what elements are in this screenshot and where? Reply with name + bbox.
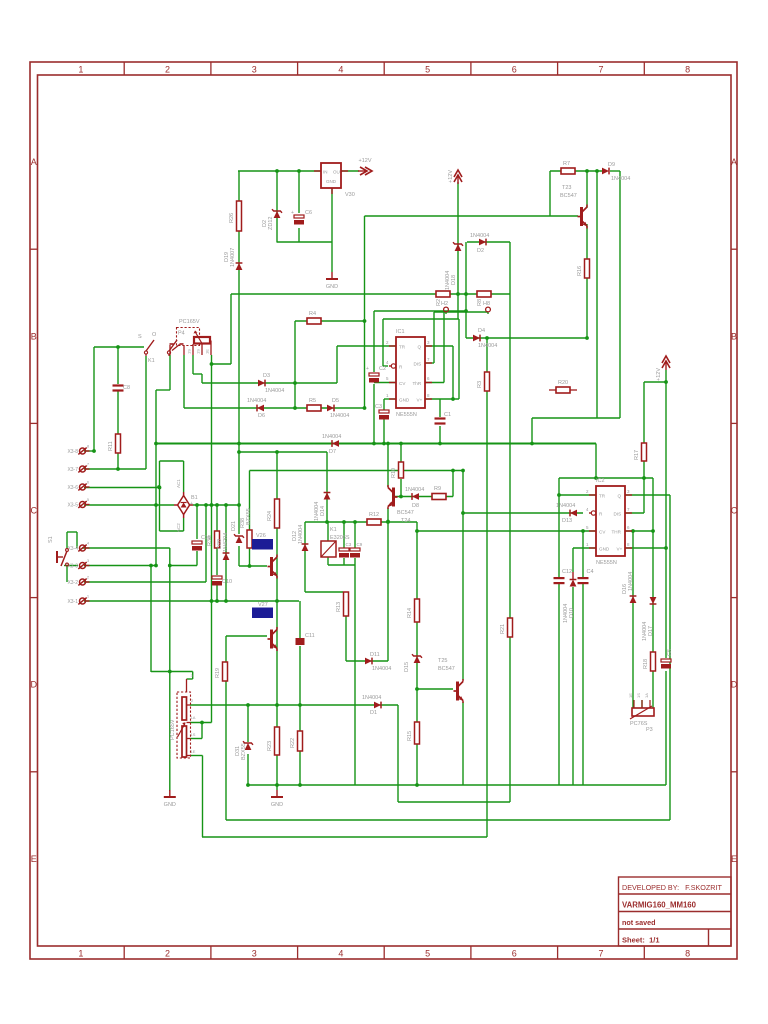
svg-text:1A: 1A (191, 715, 196, 720)
wire R5/D5/D6 line (184, 407, 365, 409)
svg-text:1N4004: 1N4004 (330, 413, 349, 419)
ground P2 (169, 790, 171, 797)
wire D11 line (346, 660, 388, 662)
svg-text:C: C (731, 506, 738, 516)
svg-text:4: 4 (338, 65, 343, 75)
wire D31 chain (247, 705, 249, 742)
svg-text:TR: TR (599, 494, 606, 499)
svg-text:Q: Q (618, 494, 622, 499)
resistor R10 (399, 462, 404, 478)
wire D21 to V26 base (239, 565, 267, 567)
resistor R9 (432, 494, 446, 500)
frame column ticks top/bottom (123, 62, 125, 75)
wire IC2 Q down to bus (669, 495, 671, 820)
wire C2 chain (373, 311, 375, 372)
svg-text:D: D (731, 680, 738, 690)
svg-text:R3: R3 (477, 381, 483, 388)
svg-text:3: 3 (252, 65, 257, 75)
svg-text:+12V: +12V (359, 158, 372, 164)
svg-text:V26: V26 (256, 533, 266, 539)
svg-text:1S: 1S (196, 349, 201, 354)
resistor R26 (237, 201, 242, 231)
svg-text:E3206S: E3206S (330, 535, 350, 541)
connector X3-1 (80, 598, 86, 604)
optocoupler V26 (252, 539, 273, 550)
svg-text:A: A (31, 157, 37, 167)
svg-text:DEVELOPED BY: F.SKOZRIT: DEVELOPED BY: F.SKOZRIT (622, 883, 722, 892)
svg-text:C9: C9 (357, 542, 363, 547)
wire IC1 DIS stub (425, 362, 434, 364)
svg-text:Sheet: 1/1: Sheet: 1/1 (622, 936, 660, 945)
wire H2 stub (445, 312, 447, 314)
potentiometer P3 (632, 708, 654, 716)
wire R4 line (295, 320, 365, 322)
zener D31 (245, 743, 252, 750)
wire bottom bus 1 (248, 784, 666, 786)
svg-text:X3-3: X3-3 (67, 564, 78, 570)
svg-text:C3: C3 (346, 542, 352, 547)
wire corner bus (595, 444, 597, 479)
svg-text:R15: R15 (407, 731, 413, 741)
wire V30 OUT to +12V arrow (341, 170, 359, 172)
svg-text:1N4004: 1N4004 (322, 434, 341, 440)
svg-text:1E: 1E (191, 749, 196, 754)
wire X3-7 pin line (84, 468, 146, 470)
svg-text:C8: C8 (123, 385, 130, 391)
svg-text:C12: C12 (562, 569, 572, 575)
wire IC1 ThR stub (425, 382, 444, 384)
capacitor C6 (294, 215, 304, 218)
diode D11 (365, 658, 372, 665)
svg-text:5: 5 (425, 65, 430, 75)
wire R2/R8 line (231, 293, 510, 295)
resistor R5 (307, 405, 321, 411)
svg-text:1S: 1S (636, 693, 641, 698)
wire reset/+12 link (383, 318, 459, 320)
wire bridge + output (193, 504, 239, 506)
svg-text:K1: K1 (148, 358, 155, 364)
wire switch down to X3-3 (155, 390, 157, 566)
wire R24 branch (239, 451, 327, 453)
wire R3 long chain (486, 338, 488, 837)
diode D13 (570, 510, 577, 517)
diode D10 (572, 572, 574, 580)
svg-text:B: B (31, 331, 37, 341)
wire bottom bus 3 (226, 819, 670, 821)
connector X3-2 (80, 579, 86, 585)
diode D9 (602, 168, 609, 175)
svg-text:D15: D15 (404, 662, 410, 672)
wire IC2 THR line (625, 530, 653, 532)
wire C15 bottom link (170, 565, 197, 567)
svg-text:D1: D1 (370, 710, 377, 716)
wire P2 1E down (202, 756, 204, 838)
svg-text:R20: R20 (558, 380, 568, 386)
svg-text:1N4004: 1N4004 (405, 487, 424, 493)
voltage regulator V30 (321, 163, 341, 188)
svg-text:Q: Q (418, 345, 422, 350)
transistor V27 output (270, 630, 273, 649)
svg-text:NE555N: NE555N (396, 412, 417, 418)
wire Q to V+ vertical (452, 346, 454, 399)
svg-text:D18: D18 (451, 275, 457, 285)
svg-text:X3-5: X3-5 (67, 503, 78, 509)
svg-text:D17: D17 (648, 626, 654, 636)
svg-text:1N4004: 1N4004 (611, 176, 630, 182)
transistor T23 (580, 207, 583, 226)
connector X3-4 (80, 545, 86, 551)
svg-text:BZX55: BZX55 (246, 508, 252, 525)
wire X3-3 branch down (150, 566, 152, 673)
frame row ticks left/right (30, 248, 38, 250)
wire C1 chain (439, 399, 441, 417)
svg-text:R34: R34 (207, 536, 213, 546)
wire X3-2 up (205, 505, 207, 582)
resistor R13 (344, 592, 349, 616)
wire D12 to R13 (305, 591, 343, 593)
svg-text:GND: GND (271, 802, 283, 808)
svg-text:D3: D3 (263, 373, 270, 379)
svg-text:6: 6 (512, 65, 517, 75)
svg-text:R9: R9 (434, 486, 441, 492)
wire S1 staple (67, 531, 77, 533)
wire X3-2 pin line (84, 581, 206, 583)
wire P3 middle stub (641, 700, 643, 708)
wire bottom bus 4 (202, 836, 487, 838)
svg-text:1N4004: 1N4004 (372, 666, 391, 672)
svg-text:D6: D6 (258, 413, 265, 419)
svg-text:GND: GND (399, 398, 410, 403)
resistor R16 (585, 259, 590, 278)
svg-text:O: O (152, 332, 157, 338)
svg-text:X3-8: X3-8 (67, 449, 78, 455)
svg-text:DIS: DIS (414, 362, 422, 367)
svg-text:+: + (366, 366, 369, 372)
svg-text:V27: V27 (258, 602, 268, 608)
wire IC1 GND stub (384, 398, 396, 400)
wire R24/V26/V27 chain (276, 452, 278, 790)
connector X3-5 (80, 502, 86, 508)
svg-text:CV: CV (399, 381, 406, 386)
wire IC2 Q line (625, 494, 670, 496)
resistor R12 (367, 519, 381, 525)
transformer P2 (177, 692, 191, 758)
wire zener D2 chain (276, 171, 278, 242)
zener D2 (274, 211, 281, 218)
svg-text:BC547: BC547 (560, 193, 577, 199)
svg-text:H2: H2 (441, 301, 448, 307)
wire P4 pin3 down to P2 1A (211, 355, 213, 723)
diode D17 (650, 597, 657, 604)
wire X3-8 up (93, 347, 95, 451)
svg-text:1A: 1A (644, 693, 649, 698)
wire R12 line (305, 521, 417, 523)
wire T23 base line (365, 215, 579, 217)
svg-text:D: D (30, 680, 37, 690)
junction dots (275, 169, 279, 173)
svg-text:1N4004: 1N4004 (556, 503, 575, 509)
svg-text:K1: K1 (330, 527, 337, 533)
wire C9 chain (354, 522, 356, 548)
wire R10 chain (400, 444, 402, 463)
wire transformer to R2 line (230, 294, 232, 364)
transistor V26 output (270, 557, 273, 576)
svg-text:ThR: ThR (413, 381, 422, 386)
svg-text:C2: C2 (379, 366, 386, 372)
svg-text:R13: R13 (336, 602, 342, 612)
svg-text:1S: 1S (187, 349, 192, 354)
wire +12V D18 chain (457, 182, 459, 319)
svg-text:R4: R4 (309, 311, 316, 317)
wire R9 riser (452, 471, 454, 497)
svg-text:1N4204: 1N4204 (223, 533, 229, 552)
svg-text:X3-4: X3-4 (67, 546, 78, 552)
svg-text:1N4007: 1N4007 (230, 248, 236, 267)
svg-text:T25: T25 (438, 658, 447, 664)
svg-text:R22: R22 (290, 738, 296, 748)
svg-text:1N4004: 1N4004 (362, 695, 381, 701)
svg-text:4: 4 (338, 949, 343, 959)
svg-text:C11: C11 (305, 633, 315, 639)
wire P2 pin stubs (190, 722, 212, 724)
zener D18 (455, 244, 462, 251)
svg-text:E: E (731, 854, 737, 864)
wire transformer link (212, 363, 232, 365)
transistor T24 (392, 488, 395, 507)
diode D12 (302, 544, 309, 551)
resistor R4 (307, 318, 321, 324)
svg-text:R11: R11 (108, 441, 114, 451)
svg-text:T23: T23 (562, 185, 571, 191)
wire B1 AC1 riser (159, 461, 161, 531)
svg-text:R24: R24 (267, 511, 273, 521)
svg-text:D13: D13 (562, 518, 572, 524)
resistor R21 (508, 618, 513, 637)
svg-text:R7: R7 (563, 161, 570, 167)
wire T23 collector/emitter chain (586, 171, 588, 208)
wire D2 1N4004 branch (467, 241, 510, 243)
svg-text:D7: D7 (329, 449, 336, 455)
wire base net / R4-D5 vertical (364, 216, 366, 408)
diode D19 (236, 263, 243, 270)
svg-text:PC165V: PC165V (170, 719, 176, 740)
svg-text:8: 8 (685, 949, 690, 959)
wire +12V top rail to V30 IN (238, 170, 321, 172)
svg-text:2: 2 (165, 65, 170, 75)
wire ThR vertical (443, 312, 445, 383)
wire C4 chain (582, 531, 584, 577)
wire switch pole left (145, 356, 147, 469)
IC2 NE555 (596, 486, 625, 556)
pin H2 (444, 307, 449, 312)
diode D8 (412, 493, 419, 500)
resistor R20 (556, 387, 570, 393)
capacitor C3 (379, 410, 389, 413)
wire P4 pin2 jog (192, 355, 194, 374)
wire IC1 CV stub (374, 382, 396, 384)
svg-text:V30: V30 (345, 192, 355, 198)
svg-text:IN: IN (323, 170, 328, 175)
wire K1 coil chain (327, 522, 329, 565)
resistor R19 (223, 662, 228, 681)
wire D1 line (190, 704, 398, 706)
wire D17/R18 chain (652, 478, 654, 708)
svg-text:R14: R14 (407, 608, 413, 618)
svg-text:C: C (30, 506, 37, 516)
capacitor C4 (578, 577, 589, 579)
wire X3-4 pin line (82, 547, 170, 549)
wire cap bottoms link (328, 564, 355, 566)
connector X3-6 (80, 484, 86, 490)
+12V supply arrow up right (662, 356, 670, 363)
svg-text:GND: GND (326, 179, 337, 184)
wire X3-5 pin to bridge (84, 504, 174, 506)
svg-text:1N4004: 1N4004 (265, 388, 284, 394)
wire R9/T25 collector bus (250, 470, 464, 472)
ground V30 (331, 272, 333, 279)
svg-text:R16: R16 (577, 266, 583, 276)
resistor R23 (275, 727, 280, 755)
resistor R38 (247, 530, 252, 548)
wire main bus to C12 (558, 478, 560, 577)
frame inner border (38, 75, 732, 946)
wire D2 left vertical (465, 242, 467, 338)
wire C3b chain (343, 522, 345, 548)
svg-text:R26: R26 (229, 213, 235, 223)
svg-text:BC547: BC547 (438, 666, 455, 672)
svg-text:C1: C1 (444, 412, 451, 418)
connector X3-8 (80, 448, 86, 454)
svg-text:+12V: +12V (656, 368, 662, 381)
wire R19 chain (225, 636, 227, 662)
wire T24 emitter down / D11 vertical (387, 508, 389, 661)
wire D20 chain (225, 505, 227, 601)
resistor R22 (298, 731, 303, 751)
svg-text:6: 6 (512, 949, 517, 959)
svg-text:D10: D10 (569, 608, 575, 618)
svg-text:X3-2: X3-2 (67, 580, 78, 586)
wire P4 pin1 down (183, 355, 185, 408)
svg-text:E: E (31, 854, 37, 864)
diode D14 (324, 493, 331, 500)
svg-text:BC547: BC547 (397, 510, 414, 516)
resistor R15 (415, 722, 420, 744)
capacitor C3b (339, 548, 349, 551)
wire R7 net top right (550, 170, 603, 172)
svg-text:R5: R5 (309, 398, 316, 404)
resistor R24 (275, 499, 280, 528)
svg-text:B: B (731, 331, 737, 341)
wire D12 chain (304, 522, 306, 592)
diode D1 (374, 702, 381, 709)
zener D21 (236, 536, 243, 543)
svg-text:C10: C10 (222, 579, 232, 585)
svg-text:R17: R17 (634, 450, 640, 460)
svg-text:A: A (731, 157, 737, 167)
diode D3 (258, 380, 265, 387)
wire C2 top link (374, 310, 466, 312)
svg-text:R12: R12 (369, 512, 379, 518)
relay coil K1 (321, 541, 336, 557)
wire D16 chain (632, 531, 634, 708)
title block (619, 877, 732, 946)
wire R26/D19 chain (238, 171, 240, 534)
diode D7 (332, 440, 339, 447)
svg-text:1N4004: 1N4004 (298, 525, 304, 544)
wire T25 emitter down (462, 702, 464, 785)
svg-text:P3: P3 (646, 727, 653, 733)
svg-text:R19: R19 (215, 668, 221, 678)
resistor R8 (477, 291, 491, 297)
svg-text:X3-7: X3-7 (67, 467, 78, 473)
wire T25 base (417, 688, 453, 690)
IC1 NE555 (396, 337, 425, 408)
capacitor C12 (554, 577, 565, 579)
svg-text:2: 2 (165, 949, 170, 959)
svg-text:not saved: not saved (622, 918, 656, 927)
optocoupler V27 (252, 608, 273, 619)
wire DIS vertical (433, 312, 435, 363)
wire IC1 V+ line (425, 398, 459, 400)
wire bottom bus 2 (398, 801, 510, 803)
svg-text:ZD12: ZD12 (268, 217, 274, 230)
svg-text:THR: THR (612, 530, 622, 535)
svg-text:1N4004: 1N4004 (628, 572, 634, 591)
wire T24 base to D8/R9 line (394, 496, 453, 498)
resistor R2 (436, 291, 450, 297)
svg-text:AC1: AC1 (176, 479, 181, 488)
wire T24 collector up (387, 444, 389, 488)
ground V27 emitter (276, 790, 278, 797)
pushbutton S1 (61, 551, 67, 566)
svg-text:GND: GND (164, 802, 176, 808)
wire R17 chain (643, 382, 645, 513)
wire reset vertical (382, 319, 384, 366)
capacitor C10 (212, 576, 222, 579)
wire V27 base line (226, 635, 267, 637)
svg-text:1S: 1S (191, 732, 196, 737)
wire IC1 R stub (383, 365, 388, 367)
wire C6 chain (298, 171, 300, 213)
svg-text:VARMIG160_MM160: VARMIG160_MM160 (622, 901, 697, 910)
wire C11/R22 chain (299, 601, 301, 638)
svg-text:1: 1 (78, 65, 83, 75)
wire H8-DIS link (434, 311, 488, 313)
svg-text:+: + (190, 501, 193, 507)
svg-text:R10: R10 (391, 468, 397, 478)
wire D4 line to R16 (466, 337, 587, 339)
wire +12V C5 chain (665, 370, 667, 658)
svg-text:S1: S1 (48, 536, 54, 543)
resistor R18 (651, 652, 656, 671)
wire IC2 R / D13 line (463, 512, 583, 514)
svg-text:V+: V+ (417, 398, 423, 403)
switch K1 contacts (146, 340, 154, 351)
svg-text:D4: D4 (478, 328, 485, 334)
wire IC2 CV line (417, 530, 596, 532)
capacitor C11 (296, 638, 305, 645)
wire C8/R11 chain (117, 347, 119, 384)
connector X3-3 (80, 563, 86, 569)
svg-text:D21: D21 (231, 521, 237, 531)
wire IC2 top rail (559, 477, 653, 479)
svg-text:D11: D11 (370, 652, 380, 658)
connector X3-7 (80, 466, 86, 472)
bridge rectifier B1 (178, 496, 190, 515)
svg-text:V+: V+ (617, 547, 623, 552)
wire switch pole right (169, 355, 171, 390)
svg-text:DIS: DIS (614, 512, 622, 517)
